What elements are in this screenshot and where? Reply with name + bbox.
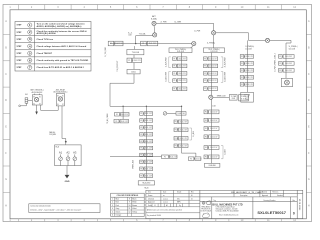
wire TB-A to ground — [66, 166, 68, 175]
svg-text:F1: F1 — [140, 141, 142, 143]
relay K2 label — [54, 88, 68, 93]
svg-text:1L0B: 1L0B — [128, 35, 131, 37]
bracket column B lower — [190, 128, 195, 140]
TVS bus wire — [110, 43, 192, 45]
svg-text:F1: F1 — [175, 145, 177, 147]
wire TVS chain to lower bus — [110, 74, 134, 106]
svg-text:F1: F1 — [205, 147, 207, 149]
relay K1 — [32, 94, 42, 106]
drawing number header — [214, 200, 276, 202]
svg-text:Rev: Rev — [293, 200, 296, 202]
terminal block TB-A — [55, 145, 82, 166]
svg-text:2L_PWR(B+): 2L_PWR(B+) — [207, 42, 216, 44]
svg-text:F1: F1 — [241, 84, 243, 86]
drawing number — [257, 210, 286, 215]
svg-text:2L01 2.5Y: 2L01 2.5Y — [121, 114, 129, 116]
fuse pair B-3 — [174, 128, 188, 132]
svg-text:Drawing Number: Drawing Number — [264, 200, 276, 202]
svg-text:2L01 2.5Y: 2L01 2.5Y — [246, 77, 254, 79]
svg-text:1L_PWR(B+): 1L_PWR(B+) — [245, 46, 254, 48]
svg-text:2L01 2.5Y: 2L01 2.5Y — [145, 141, 153, 143]
svg-text:2L01 2.5Y: 2L01 2.5Y — [180, 121, 188, 123]
bracket group 2L_AUX — [164, 71, 170, 82]
junction X2 TVS tap — [153, 33, 157, 37]
svg-text:2L01 2.5Y: 2L01 2.5Y — [285, 70, 293, 72]
svg-text:2L01 2.5Y: 2L01 2.5Y — [145, 161, 153, 163]
svg-text:Thickness: Thickness — [272, 192, 279, 194]
svg-text:Orange: Orange — [116, 214, 122, 217]
bracket column C lower — [221, 146, 226, 159]
svg-text:A1: A1 — [59, 151, 63, 155]
svg-text:TVS-2L0B: TVS-2L0B — [132, 52, 139, 54]
projection cell texts — [201, 206, 211, 213]
lamp box 5L — [281, 78, 292, 86]
spare box S2 — [239, 95, 249, 101]
fuse pair 2L01 — [204, 57, 218, 61]
svg-text:Blue: Blue — [116, 199, 119, 201]
svg-text:F1: F1 — [241, 63, 243, 65]
bracket group 4L_AUX — [221, 71, 226, 82]
bracket group 1L_AUX — [164, 56, 170, 67]
net label 2L_PWR at bus box — [207, 42, 216, 44]
svg-text:White: White — [132, 201, 136, 204]
fuse pair A1-4 — [140, 133, 153, 137]
svg-text:F1: F1 — [204, 88, 206, 90]
svg-text:2L01 2.5Y: 2L01 2.5Y — [210, 157, 218, 159]
svg-text:2L0B-1: 2L0B-1 — [131, 71, 136, 73]
svg-text:STEP: STEP — [17, 67, 23, 69]
svg-text:F1: F1 — [204, 58, 206, 60]
title block left cells extra texts — [154, 195, 193, 207]
sheet number rotated — [299, 199, 301, 210]
rotated label TB_A1 cable — [106, 113, 109, 123]
ground symbol GND — [65, 175, 70, 183]
svg-text:F1: F1 — [140, 127, 142, 129]
terminal bus TB-1L — [169, 48, 192, 53]
junction X4 — [265, 38, 269, 42]
fuse F01 — [25, 94, 28, 103]
wire column D — [246, 40, 248, 92]
svg-text:G: G — [5, 178, 7, 181]
colour code table — [111, 193, 145, 216]
svg-text:F1: F1 — [205, 120, 207, 122]
svg-text:4: 4 — [29, 44, 31, 48]
svg-text:10: 10 — [128, 205, 130, 207]
wire drop column B lower — [181, 106, 183, 147]
svg-text:2L01 2.5Y: 2L01 2.5Y — [178, 58, 186, 60]
svg-text:1:1: 1:1 — [154, 205, 156, 207]
svg-text:Black: Black — [132, 199, 136, 201]
fuse pair 5L12 — [279, 62, 295, 66]
label TVS_30A — [139, 32, 145, 35]
svg-text:2L01 2.5Y: 2L01 2.5Y — [209, 88, 217, 90]
svg-text:0: 0 — [293, 211, 295, 215]
svg-text:G: G — [308, 178, 310, 181]
svg-text:Green: Green — [116, 210, 121, 213]
svg-text:Check continuity with ground t: Check continuity with ground to TB7 & B-… — [37, 59, 89, 62]
svg-text:12: 12 — [128, 211, 130, 213]
svg-text:2L_PWR: 2L_PWR — [161, 21, 168, 23]
svg-text:F1: F1 — [175, 129, 177, 131]
svg-text:F1: F1 — [140, 161, 142, 163]
svg-text:STEP: STEP — [17, 46, 23, 48]
svg-text:F1: F1 — [279, 56, 281, 58]
svg-text:F1: F1 — [142, 43, 144, 45]
svg-text:F1: F1 — [279, 70, 281, 72]
fuse pair 1L03 — [173, 72, 187, 76]
svg-text:BULL MACHINES PVT LTD: BULL MACHINES PVT LTD — [212, 203, 242, 206]
svg-text:1: 1 — [112, 199, 113, 201]
fuse pair A1-7 — [140, 153, 153, 157]
svg-text:3: 3 — [29, 37, 31, 41]
svg-text:2L01 2.5Y: 2L01 2.5Y — [178, 88, 186, 90]
svg-text:6: 6 — [112, 215, 113, 217]
svg-text:Scale: Scale — [148, 205, 152, 207]
fuse pair 1L02 — [173, 64, 187, 68]
fuse pair FL1 — [108, 41, 123, 46]
svg-text:01: 01 — [191, 198, 193, 200]
svg-text:9: 9 — [129, 202, 130, 204]
bracket group 3L_AUX — [221, 56, 226, 67]
svg-text:F1: F1 — [116, 121, 118, 123]
title block left rows texts — [147, 198, 182, 216]
svg-text:Sno: Sno — [148, 192, 151, 194]
svg-text:2L01 2.5Y: 2L01 2.5Y — [145, 134, 153, 136]
svg-text:F1: F1 — [174, 73, 176, 75]
svg-text:11: 11 — [129, 208, 131, 210]
svg-text:2L01 2.5Y: 2L01 2.5Y — [149, 43, 157, 45]
junction X1 battery stud — [152, 21, 156, 25]
svg-text:STEP: STEP — [17, 39, 23, 41]
svg-text:F1: F1 — [174, 80, 176, 82]
lower distribution bus wire — [110, 105, 182, 107]
svg-text:Check fuse B-TO AUX-01 to AUX-: Check fuse B-TO AUX-01 to AUX-1 & AUX04-… — [37, 66, 85, 69]
svg-text:3: 3 — [112, 205, 113, 207]
svg-text:4: 4 — [112, 208, 113, 210]
terminal box TB-A1 end — [138, 181, 154, 185]
svg-text:6: 6 — [29, 58, 31, 62]
svg-text:A2: A2 — [66, 151, 70, 155]
title block frame — [146, 190, 303, 218]
wire X3 to east branch — [216, 33, 291, 41]
svg-text:2L01 2.5Y: 2L01 2.5Y — [115, 43, 123, 45]
rotated label TVS chain — [117, 60, 119, 71]
junction X6 spare tap — [209, 95, 213, 99]
svg-text:F1: F1 — [175, 121, 177, 123]
svg-text:2L_TVS_PWR: 2L_TVS_PWR — [105, 46, 107, 57]
svg-text:2L01 2.5Y: 2L01 2.5Y — [246, 70, 254, 72]
svg-text:F1: F1 — [241, 56, 243, 58]
svg-text:PROJECTION: PROJECTION — [201, 209, 210, 211]
svg-text:2L01 2.5Y: 2L01 2.5Y — [180, 129, 188, 131]
net label 2L_PWR at X3 — [194, 30, 201, 32]
svg-text:F1: F1 — [174, 88, 176, 90]
svg-text:2L01 2.5Y: 2L01 2.5Y — [246, 63, 254, 65]
net label B+_WIRE — [175, 21, 182, 23]
svg-text:F1: F1 — [279, 63, 281, 65]
wire B+ main bus — [156, 23, 213, 30]
wire column E — [286, 40, 291, 78]
svg-text:F1: F1 — [110, 43, 112, 45]
svg-text:Red: Red — [116, 202, 119, 204]
svg-text:Grey: Grey — [116, 207, 120, 210]
svg-text:1L0B: 1L0B — [245, 97, 249, 99]
svg-text:SHEET NO 1/1: SHEET NO 1/1 — [299, 199, 301, 210]
svg-text:F1: F1 — [241, 70, 243, 72]
svg-text:2L01 2.5Y: 2L01 2.5Y — [209, 66, 217, 68]
svg-text:Tag: Tag — [214, 200, 216, 202]
svg-text:2L01 2.5Y: 2L01 2.5Y — [210, 120, 218, 122]
wire relay K1 to relay K2 — [41, 105, 59, 110]
fuse pair B-2 — [174, 120, 188, 124]
label at TVS left — [128, 33, 132, 37]
svg-text:2L01 2.5Y: 2L01 2.5Y — [210, 147, 218, 149]
fuse pair B-5 — [174, 144, 188, 148]
title block row2 texts — [148, 194, 283, 197]
fuse pair 2L03 — [204, 72, 218, 76]
wire fuse to relay K1 — [28, 100, 32, 102]
svg-text:Brown: Brown — [132, 204, 137, 207]
svg-text:2L01 2.5Y: 2L01 2.5Y — [180, 138, 188, 140]
svg-text:F1: F1 — [190, 158, 192, 160]
svg-text:C: C — [5, 73, 7, 76]
svg-text:F1: F1 — [140, 134, 142, 136]
svg-text:STEP: STEP — [17, 32, 23, 34]
wire fuse to battery stud — [19, 103, 27, 107]
notes box — [29, 204, 100, 213]
fuse pair A1-3 — [140, 126, 153, 130]
fuse pair FL2 — [141, 41, 158, 46]
svg-text:F1: F1 — [140, 120, 142, 122]
wire drop column A1 — [145, 106, 147, 181]
svg-text:1L0,1L0B: 1L0,1L0B — [245, 48, 251, 50]
svg-text:TB-1L_PWR(B+): TB-1L_PWR(B+) — [175, 49, 187, 51]
svg-text:5L0,5L0B: 5L0,5L0B — [289, 48, 295, 50]
svg-text:2L01 2.5Y: 2L01 2.5Y — [246, 84, 254, 86]
fuse pair 2L15 — [204, 146, 219, 150]
revision header — [293, 200, 296, 202]
fuse pair 2L04 — [204, 79, 218, 83]
svg-text:2L01 2.5Y: 2L01 2.5Y — [210, 136, 218, 138]
svg-text:F1: F1 — [241, 77, 243, 79]
svg-text:Pink: Pink — [116, 205, 119, 207]
fuse pair 1L12 — [240, 62, 254, 66]
company name — [212, 203, 242, 206]
svg-text:1L0B 2.5R: 1L0B 2.5R — [177, 113, 185, 115]
svg-text:2.5SQMM: 2.5SQMM — [49, 134, 57, 136]
svg-text:AUX03,(B-) AUX04: AUX03,(B-) AUX04 — [37, 32, 57, 35]
svg-text:Check voltage between AUX-1, A: Check voltage between AUX-1, AUX-3 & Gro… — [37, 45, 87, 48]
svg-text:2L01 2.5Y: 2L01 2.5Y — [145, 175, 153, 177]
svg-text:2L01 2.5Y: 2L01 2.5Y — [145, 168, 153, 170]
svg-text:STEP: STEP — [17, 60, 23, 62]
fuse pair bottom-1 — [162, 155, 178, 159]
svg-text:2L01 2.5Y: 2L01 2.5Y — [285, 56, 293, 58]
svg-text:2L_PWR: 2L_PWR — [194, 30, 201, 32]
fuse pair 1L04 — [173, 79, 187, 83]
svg-text:Violet: Violet — [132, 207, 137, 210]
svg-text:2L01 2.5Y: 2L01 2.5Y — [210, 128, 218, 130]
indicator lamp L1 — [163, 112, 176, 116]
terminal box TO CAB — [241, 92, 254, 102]
svg-text:2L01 2.5Y: 2L01 2.5Y — [145, 113, 153, 115]
svg-text:5: 5 — [112, 211, 113, 213]
fuse pair 5L13 — [279, 69, 295, 73]
svg-text:5L_PWR(B+): 5L_PWR(B+) — [289, 46, 298, 48]
net label 2L_PWR — [161, 21, 168, 23]
svg-text:2: 2 — [112, 202, 113, 204]
label column E — [289, 46, 298, 50]
fuse pair 2L16 — [204, 155, 219, 159]
wire X3 down to bus TB-2L — [213, 35, 215, 48]
drawing title — [231, 191, 263, 194]
fuse pair 1L13 — [240, 69, 254, 73]
terminal bus TB-2L — [204, 48, 225, 53]
svg-text:BMPL: BMPL — [177, 202, 181, 204]
svg-text:2L0B: 2L0B — [232, 98, 235, 100]
svg-text:2L01 2.5Y: 2L01 2.5Y — [210, 112, 218, 114]
svg-text:F1: F1 — [205, 112, 207, 114]
svg-text:Email : info@bullmachines.com: Email : info@bullmachines.com — [219, 215, 239, 217]
svg-text:Checked: Checked — [148, 198, 154, 200]
fuse pair A1-1 — [140, 112, 153, 116]
svg-text:SSL_AUXILIARY_G_TB_CHART: SSL_AUXILIARY_G_TB_CHART — [231, 191, 263, 194]
svg-text:F1: F1 — [174, 58, 176, 60]
svg-text:2L01 2.5Y: 2L01 2.5Y — [170, 156, 178, 158]
svg-text:2L01 2.5Y: 2L01 2.5Y — [178, 80, 186, 82]
svg-text:2L01 2.5Y: 2L01 2.5Y — [209, 80, 217, 82]
fuse pair 2L11 — [204, 110, 219, 114]
svg-text:B+_WIRE: B+_WIRE — [175, 21, 182, 23]
net label below X6 — [212, 105, 215, 107]
svg-text:SSL: SSL — [177, 198, 180, 200]
svg-text:TB-2L_PWR(B+): TB-2L_PWR(B+) — [208, 49, 220, 51]
fuse pair 1L15 — [240, 83, 254, 87]
svg-text:AUX01, AUX02(B+), AUX03(-ve),: AUX01, AUX02(B+), AUX03(-ve), AUX04(B+) — [37, 25, 82, 28]
svg-text:F1: F1 — [140, 175, 142, 177]
svg-text:2: 2 — [29, 30, 31, 34]
fuse pair A1-2 — [140, 119, 153, 123]
wire X2 to TVS bus — [136, 36, 153, 44]
svg-text:Yellow: Yellow — [132, 211, 138, 213]
fuse pair 5L11 — [279, 55, 295, 59]
fuse pair 1L05 — [173, 87, 187, 91]
rotated label column A1 — [132, 160, 135, 169]
svg-text:F1: F1 — [204, 73, 206, 75]
fuse pair 2L13 — [204, 127, 219, 131]
fuse pair 1L14 — [240, 76, 254, 80]
svg-text:F1: F1 — [140, 148, 142, 150]
TVS lower box — [127, 69, 140, 74]
fuse pair 1L11 — [240, 55, 254, 59]
svg-text:F1: F1 — [140, 113, 142, 115]
svg-text:GND: GND — [65, 181, 70, 183]
spare box S1 — [229, 95, 237, 101]
revision number — [293, 211, 295, 215]
svg-text:F1: F1 — [205, 157, 207, 159]
bottom branch wire — [110, 155, 162, 157]
svg-text:xx: xx — [163, 195, 165, 197]
svg-text:B+_2L: B+_2L — [128, 33, 132, 35]
fuse box B-1 — [176, 112, 186, 116]
svg-text:STEP: STEP — [17, 53, 23, 55]
step procedure table — [15, 22, 91, 72]
relay K1 label — [30, 89, 43, 94]
svg-text:F1: F1 — [116, 114, 118, 116]
wire TVS chain — [133, 46, 136, 69]
svg-text:TVS_PROTECT: TVS_PROTECT — [117, 60, 119, 71]
third angle projection symbol — [202, 201, 210, 205]
svg-text:2L01 2.5Y: 2L01 2.5Y — [178, 66, 186, 68]
fuse pair 1L01 — [173, 57, 187, 61]
fuse pair A1-10 — [140, 174, 153, 178]
svg-text:Connection details (tinned):: Connection details (tinned): — [30, 205, 51, 208]
svg-text:D: D — [308, 99, 310, 102]
fuse pair A2-2 — [114, 119, 129, 123]
svg-text:F1: F1 — [204, 66, 206, 68]
battery B+ label — [151, 15, 157, 20]
fuse pair A1-9 — [140, 167, 153, 171]
svg-text:00: 00 — [191, 195, 193, 197]
svg-text:2L01 2.5Y: 2L01 2.5Y — [285, 63, 293, 65]
wire column C lower — [211, 99, 213, 163]
fuse pair 2L14 — [204, 135, 219, 139]
svg-text:F1: F1 — [204, 80, 206, 82]
wire column B upper — [181, 53, 183, 91]
svg-text:F1: F1 — [140, 168, 142, 170]
svg-text:Kg: Kg — [179, 205, 181, 207]
wire column B to bottom pair — [182, 148, 196, 157]
svg-text:F1: F1 — [205, 136, 207, 138]
svg-text:xx.xx.xx: xx.xx.xx — [163, 202, 168, 204]
svg-text:D: D — [5, 99, 7, 102]
svg-text:H: H — [308, 204, 310, 207]
svg-text:2L0B-GND: 2L0B-GND — [209, 165, 217, 167]
svg-text:F1: F1 — [128, 60, 130, 62]
wire column C upper — [211, 53, 213, 96]
svg-text:1: 1 — [29, 23, 31, 27]
svg-text:Check TB01/07: Check TB01/07 — [37, 53, 53, 55]
net label SPARE_2L — [217, 95, 226, 98]
fuse pair A1-8 — [140, 160, 153, 164]
svg-text:2L01 2.5Y: 2L01 2.5Y — [180, 145, 188, 147]
svg-text:A3: A3 — [73, 151, 77, 155]
svg-text:Check TVS fuse: Check TVS fuse — [37, 39, 54, 41]
fuse pair A1-6 — [140, 146, 153, 150]
svg-text:2L01 2.5Y: 2L01 2.5Y — [145, 127, 153, 129]
svg-text:F1: F1 — [205, 128, 207, 130]
svg-text:2L0B: 2L0B — [212, 105, 215, 107]
svg-text:H: H — [5, 204, 7, 207]
fuse pair TVS2 — [127, 58, 142, 63]
svg-text:2L01 2.5Y: 2L01 2.5Y — [145, 120, 153, 122]
svg-text:2L01 2.5Y: 2L01 2.5Y — [121, 121, 129, 123]
rotated label TVS bus start — [105, 46, 107, 57]
svg-text:2L01 2.5Y: 2L01 2.5Y — [178, 73, 186, 75]
svg-text:2L01 2.5Y: 2L01 2.5Y — [209, 58, 217, 60]
title block row1 texts — [148, 191, 279, 194]
svg-text:1L01-1L05: 1L01-1L05 — [177, 51, 184, 53]
svg-text:2L01 2.5Y: 2L01 2.5Y — [246, 56, 254, 58]
svg-text:2L01 2.5Y: 2L01 2.5Y — [133, 60, 141, 62]
wire relay K2 down to terminal block TB-A — [62, 106, 66, 145]
svg-text:SXL0LET50017: SXL0LET50017 — [257, 210, 286, 215]
svg-text:COLOUR CODE DETAILS: COLOUR CODE DETAILS — [117, 194, 139, 197]
junction node on TB-A feed — [65, 141, 67, 143]
company address lines — [216, 206, 240, 217]
junction X3 — [212, 31, 216, 35]
junction X5 — [192, 42, 196, 46]
